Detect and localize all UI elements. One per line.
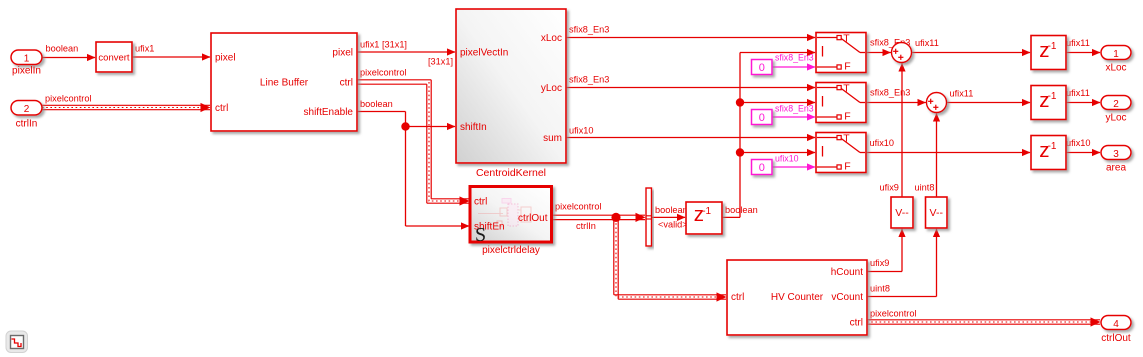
svg-text:ufix11: ufix11: [1066, 88, 1090, 98]
svg-text:ctrlOut: ctrlOut: [1101, 333, 1131, 344]
svg-text:hCount: hCount: [831, 267, 863, 278]
wire: convert to Line Buffer pixel, ufix1: [132, 44, 211, 61]
svg-text:ufix10: ufix10: [775, 154, 799, 164]
svg-text:shiftIn: shiftIn: [460, 122, 487, 133]
CentroidKernel subsystem block: [456, 9, 566, 179]
svg-text:<valid>: <valid>: [658, 220, 688, 230]
svg-text:ufix10: ufix10: [870, 138, 895, 148]
wire: CentroidKernel xLoc sfix8_En3 to Switch1: [566, 25, 816, 42]
svg-text:ctrlIn: ctrlIn: [16, 119, 38, 130]
junction: boolean to switch3 control: [736, 148, 744, 156]
svg-text:ufix9: ufix9: [880, 183, 899, 193]
svg-text:0: 0: [759, 62, 765, 74]
svg-text:ctrl: ctrl: [215, 103, 228, 114]
svg-text:shiftEnable: shiftEnable: [304, 107, 354, 118]
svg-text:F: F: [844, 111, 850, 123]
svg-text:pixel: pixel: [215, 53, 236, 64]
Add2 sum block (yLoc accumulate): [927, 93, 947, 113]
svg-text:sfix8_En3: sfix8_En3: [870, 88, 910, 98]
output port 3 area: [1101, 146, 1131, 174]
svg-text:xLoc: xLoc: [541, 33, 562, 44]
wire: Decrement1 ufix9 up to Add1: [880, 63, 906, 197]
wire: HV Counter hCount ufix9 to Decrement1: [867, 229, 906, 272]
svg-text:ctrl: ctrl: [731, 292, 744, 303]
Constant2 value 0: [752, 110, 773, 125]
svg-text:ctrl: ctrl: [474, 197, 487, 208]
input port 2 ctrlIn: [11, 101, 42, 130]
svg-text:V--: V--: [930, 207, 944, 219]
svg-text:-1: -1: [702, 206, 711, 217]
svg-text:ufix11: ufix11: [915, 38, 939, 48]
svg-text:2: 2: [24, 104, 30, 115]
svg-text:pixelcontrol: pixelcontrol: [360, 68, 406, 78]
svg-text:xLoc: xLoc: [1105, 63, 1126, 74]
svg-text:HV Counter: HV Counter: [771, 292, 824, 303]
bus selector block: [646, 188, 652, 246]
Delay Z-1 block (valid delay): [686, 202, 722, 234]
svg-text:4: 4: [1113, 319, 1119, 330]
wire: HV Counter vCount uint8 to Decrement2: [867, 229, 940, 297]
output port 1 xLoc: [1101, 46, 1131, 74]
svg-text:ufix10: ufix10: [1066, 138, 1091, 148]
svg-text:V--: V--: [895, 207, 909, 219]
svg-text:pixelIn: pixelIn: [12, 66, 41, 77]
wire: Line Buffer pixel out to CentroidKernel pixelVectIn, ufix1 [31x1]: [357, 40, 456, 67]
Delay3 Z-1 block: [1031, 136, 1066, 170]
svg-text:sfix8_En3: sfix8_En3: [569, 25, 609, 35]
wire: bus selector valid boolean to Delay Z-1: [652, 205, 688, 230]
wire: ctrlIn pixelcontrol bus to Line Buffer ctrl: [42, 94, 211, 113]
Switch3 (area): [816, 133, 866, 173]
wire: Decrement2 uint8 up to Add2: [915, 113, 941, 197]
svg-text:sum: sum: [543, 133, 562, 144]
wire: CentroidKernel yLoc sfix8_En3 to Switch2: [566, 75, 816, 92]
Constant3 value 0: [752, 160, 773, 175]
svg-text:ufix9: ufix9: [870, 258, 889, 268]
Add1 sum block (xLoc accumulate): [892, 43, 912, 63]
svg-text:uint8: uint8: [870, 284, 890, 294]
svg-text:pixelctrldelay: pixelctrldelay: [482, 245, 540, 256]
wire: pixelctrldelay ctrlOut pixelcontrol bus to bus selector, signal ctrlIn: [552, 202, 646, 232]
svg-text:0: 0: [759, 112, 765, 124]
svg-text:boolean: boolean: [46, 44, 79, 54]
wire: Constant3 ufix10 to Switch3 F input: [772, 154, 816, 171]
svg-text:ctrlOut: ctrlOut: [518, 213, 548, 224]
svg-text:1: 1: [24, 54, 30, 65]
svg-text:boolean: boolean: [360, 99, 393, 109]
svg-text:ufix10: ufix10: [569, 126, 594, 136]
svg-text:ufix11: ufix11: [1066, 38, 1090, 48]
junction: boolean to switch2 control: [736, 98, 744, 106]
svg-text:CentroidKernel: CentroidKernel: [476, 167, 546, 179]
junction: pixelcontrol bus branch: [611, 213, 620, 222]
wire: Delay2 out ufix11 to yLoc port: [1066, 88, 1101, 106]
wire: Delay boolean up to switch control inputs: [723, 49, 816, 218]
Decrement2 V-- block: [926, 197, 948, 228]
svg-text:pixel: pixel: [332, 48, 353, 59]
wire: Line Buffer ctrl out pixelcontrol bus to pixelctrldelay ctrl: [357, 68, 470, 206]
Switch2 (yLoc): [816, 83, 866, 123]
Delay2 Z-1 block: [1031, 86, 1066, 120]
wire: Delay3 out ufix10 to area port: [1066, 138, 1101, 156]
svg-text:Line Buffer: Line Buffer: [260, 78, 309, 89]
svg-text:ufix1 [31x1]: ufix1 [31x1]: [360, 40, 407, 50]
svg-text:2: 2: [1113, 99, 1119, 110]
wire: CentroidKernel sum ufix10 to Switch3: [566, 126, 816, 142]
svg-text:convert: convert: [98, 53, 130, 64]
junction: shiftEnable branch: [401, 122, 409, 130]
Decrement1 V-- block: [891, 197, 913, 228]
svg-text:1: 1: [1113, 49, 1119, 60]
svg-text:uint8: uint8: [915, 183, 935, 193]
input port 1 pixelIn: [11, 50, 42, 77]
wire: pixelIn boolean signal to convert block: [42, 44, 96, 62]
convert block (Data Type Conversion): [96, 42, 132, 72]
svg-text:ctrlIn: ctrlIn: [576, 221, 596, 231]
svg-text:area: area: [1106, 163, 1126, 174]
svg-text:boolean: boolean: [725, 205, 758, 215]
svg-text:sfix8_En3: sfix8_En3: [775, 53, 814, 63]
output port 2 yLoc: [1101, 96, 1131, 124]
svg-text:pixelcontrol: pixelcontrol: [45, 94, 91, 104]
Constant1 value 0: [752, 60, 773, 75]
wire: Add2 out ufix11 to Delay2: [947, 89, 1031, 107]
Line Buffer block: [211, 33, 357, 131]
pixelctrldelay subsystem block with content preview: [470, 187, 552, 257]
svg-text:3: 3: [1113, 149, 1119, 160]
svg-text:0: 0: [759, 162, 765, 174]
wire: Switch2 out sfix8_En3 to Add2: [866, 88, 926, 107]
wire: Line Buffer shiftEnable boolean to CentroidKernel shiftIn and pixelctrldelay shiftEn: [357, 99, 470, 230]
svg-text:yLoc: yLoc: [541, 83, 562, 94]
svg-text:sfix8_En3: sfix8_En3: [569, 75, 609, 85]
svg-text:vCount: vCount: [831, 292, 863, 303]
corner badge: sample time legend icon: [6, 331, 28, 353]
svg-text:pixelcontrol: pixelcontrol: [870, 309, 916, 319]
svg-text:-1: -1: [1048, 141, 1057, 152]
wire: Delay1 out ufix11 to xLoc port: [1066, 38, 1101, 56]
svg-text:ufix1: ufix1: [135, 44, 154, 54]
wire: Add1 out ufix11 to Delay1: [912, 38, 1031, 56]
svg-text:ufix11: ufix11: [950, 89, 974, 99]
output port 4 ctrlOut: [1101, 316, 1131, 345]
wire: pixelcontrol bus branch down to HV Counter ctrl: [614, 217, 727, 301]
svg-text:F: F: [844, 61, 850, 73]
svg-text:[31x1]: [31x1]: [428, 57, 453, 67]
svg-text:boolean: boolean: [655, 205, 688, 215]
wire: HV Counter ctrl pixelcontrol bus to ctrlOut port: [867, 309, 1101, 327]
svg-text:S: S: [475, 224, 486, 246]
svg-text:yLoc: yLoc: [1105, 113, 1126, 124]
svg-text:pixelcontrol: pixelcontrol: [555, 202, 601, 212]
wire: Switch3 out ufix10 to Delay3: [866, 138, 1031, 156]
svg-text:-1: -1: [1048, 91, 1057, 102]
svg-text:pixelVectIn: pixelVectIn: [460, 48, 508, 59]
Delay1 Z-1 block: [1031, 36, 1066, 70]
wire: Constant2 sfix8_En3 to Switch2 F input: [772, 104, 816, 121]
wire: Switch1 out sfix8_En3 to Add1: [866, 38, 910, 57]
svg-text:-1: -1: [1048, 41, 1057, 52]
svg-text:sfix8_En3: sfix8_En3: [775, 104, 814, 114]
svg-text:ctrl: ctrl: [340, 78, 353, 89]
wire: Constant1 sfix8_En3 to Switch1 F input: [772, 53, 816, 71]
Switch1 (xLoc): [816, 33, 866, 73]
svg-text:F: F: [844, 161, 850, 173]
HV Counter block: [727, 260, 867, 335]
svg-text:ctrl: ctrl: [850, 318, 863, 329]
